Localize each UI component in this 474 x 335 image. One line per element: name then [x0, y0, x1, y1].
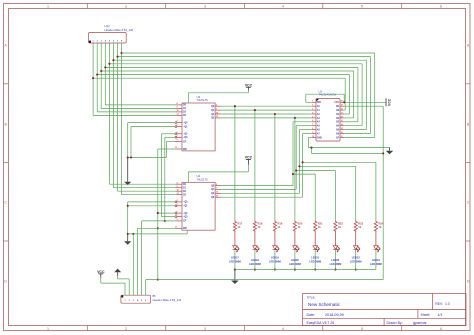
resistor R21 1k	[314, 220, 324, 232]
junction H12 pin 2	[96, 74, 98, 76]
junction gnd rail 2	[127, 233, 129, 235]
svg-text:74LS175: 74LS175	[197, 98, 209, 102]
IC U2 74LS245	[312, 89, 345, 141]
resistor R19 1k	[273, 220, 283, 232]
power flag VCC top (U3 supply)	[188, 83, 252, 103]
svg-text:16: 16	[341, 116, 343, 118]
svg-text:2: 2	[125, 327, 127, 331]
power flag VCC near U2	[386, 98, 392, 106]
resistor R23 1k	[354, 220, 364, 232]
junction LED column 2 tap	[254, 109, 256, 111]
svg-text:15: 15	[341, 120, 343, 122]
svg-text:8: 8	[312, 128, 313, 130]
connector P1 Header-Male 2.54_1x6	[121, 295, 182, 303]
wire net P0 : U4 Q0 to U2 A4 and LED column 5	[222, 122, 316, 221]
svg-text:R18: R18	[258, 222, 263, 226]
LED LED19 LED-3MM	[269, 231, 281, 270]
svg-text:LED-3MM: LED-3MM	[330, 262, 342, 266]
wire header pin6 drop	[145, 280, 147, 296]
svg-text:3: 3	[204, 4, 206, 8]
svg-text:Sheet:: Sheet:	[421, 313, 431, 317]
svg-text:CP: CP	[183, 141, 187, 143]
svg-text:3: 3	[177, 125, 178, 127]
svg-text:6: 6	[440, 327, 442, 331]
svg-text:6: 6	[312, 120, 313, 122]
wire net cathode bus	[235, 269, 376, 271]
ground symbol right of U2	[386, 148, 394, 155]
wire net bottom rail	[146, 279, 384, 281]
junction LED21 cathode	[314, 269, 316, 271]
svg-text:7: 7	[312, 124, 313, 126]
svg-text:R22: R22	[338, 222, 343, 226]
junction GND branch	[310, 147, 312, 149]
junction LED17 cathode	[234, 269, 236, 271]
wire net MR1 : U3 inverted outputs to ground rail	[128, 123, 176, 158]
svg-text:6: 6	[440, 4, 442, 8]
junction H12 pin 3	[100, 70, 102, 72]
svg-text:13: 13	[177, 193, 179, 195]
svg-text:7: 7	[216, 188, 217, 190]
svg-text:R24: R24	[379, 222, 384, 226]
svg-text:R23: R23	[358, 222, 363, 226]
svg-text:4: 4	[312, 111, 313, 114]
wire net D2 : H12 pin 3 to bus	[101, 43, 354, 118]
svg-text:7: 7	[216, 108, 217, 110]
svg-text:4: 4	[282, 4, 284, 8]
svg-text:New Schematic: New Schematic	[308, 302, 341, 307]
wire net MRB : U3 pin11 long rail	[158, 149, 176, 280]
svg-text:1: 1	[47, 327, 49, 331]
wire net OE	[344, 106, 383, 279]
wire net Q1 : U3 Q1 to U2 A1	[222, 110, 312, 220]
svg-text:5: 5	[177, 186, 178, 188]
svg-text:LED21: LED21	[311, 256, 320, 260]
power flag VCC mid (U4 supply)	[188, 156, 252, 183]
svg-text:4: 4	[282, 327, 284, 331]
svg-text:MR: MR	[183, 228, 187, 230]
junction riser 7	[298, 165, 300, 167]
junction riser 5	[292, 173, 294, 175]
svg-text:R20: R20	[298, 222, 303, 226]
svg-text:LED-3MM: LED-3MM	[370, 262, 382, 266]
svg-text:12: 12	[177, 110, 179, 112]
svg-text:LED-3MM: LED-3MM	[229, 259, 241, 263]
svg-text:R17: R17	[238, 222, 243, 226]
svg-text:LED24: LED24	[372, 258, 381, 262]
svg-text:~Q3: ~Q3	[183, 137, 188, 139]
svg-text:20: 20	[341, 101, 343, 103]
svg-text:REV: 1.0: REV: 1.0	[435, 302, 449, 306]
wire net MR2 : U4 inverted outputs to ground rail	[128, 202, 188, 234]
svg-text:74LS245ADW: 74LS245ADW	[319, 93, 337, 97]
wire net D0 : H12 pin 1 to bus	[93, 43, 345, 115]
svg-text:OE: OE	[336, 106, 340, 108]
svg-text:~Q0: ~Q0	[183, 122, 188, 124]
svg-text:LED22: LED22	[331, 258, 340, 262]
LED LED23 LED-3MM	[350, 231, 362, 270]
junction LED23 cathode	[355, 269, 357, 271]
svg-text:9: 9	[312, 132, 313, 134]
junction LED column 4 tap	[294, 117, 296, 119]
svg-text:13: 13	[177, 114, 179, 116]
junction header pin3	[132, 233, 134, 235]
svg-text:6: 6	[177, 132, 178, 134]
LED LED22 LED-3MM	[330, 231, 342, 270]
svg-text:Date:: Date:	[307, 313, 315, 317]
svg-text:9: 9	[177, 140, 178, 142]
svg-text:D: D	[467, 280, 470, 284]
svg-text:VCC: VCC	[97, 270, 105, 274]
svg-text:gparmar: gparmar	[413, 321, 428, 325]
svg-text:1/1: 1/1	[438, 313, 443, 317]
power flag VCC bottom-left	[97, 270, 125, 295]
svg-text:~Q3: ~Q3	[183, 216, 188, 218]
junction riser 6	[295, 169, 297, 171]
svg-text:2: 2	[312, 105, 313, 107]
wire net D5 : H12 pin 6 to bus	[113, 43, 366, 188]
svg-text:CP: CP	[183, 221, 187, 223]
svg-text:~Q2: ~Q2	[183, 213, 188, 215]
svg-text:14: 14	[341, 123, 343, 126]
junction rail/CP1	[157, 212, 159, 214]
svg-text:7: 7	[177, 215, 178, 217]
svg-text:~Q0: ~Q0	[183, 202, 188, 204]
svg-text:LED23: LED23	[352, 256, 361, 260]
svg-text:12: 12	[177, 190, 179, 192]
wire net P1 : U4 Q1 to U2 A5 and LED column 6	[222, 126, 336, 221]
wire net P2 : U4 Q2 to U2 A6 and LED column 7	[222, 130, 356, 221]
svg-text:TITLE:: TITLE:	[307, 295, 316, 299]
svg-text:C: C	[4, 201, 7, 205]
junction H12 pin 4	[104, 66, 106, 68]
svg-text:VCC: VCC	[388, 98, 392, 106]
wire net P3 : U4 Q3 to U2 A7 and LED column 8	[222, 134, 376, 221]
ground symbol LED bus	[231, 270, 239, 284]
wire net U4 pin11 from header pin4	[138, 228, 176, 295]
svg-text:15: 15	[216, 196, 218, 198]
junction rail/bottom bus	[157, 279, 159, 281]
ground symbol bottom-left (inverted)	[114, 269, 129, 296]
svg-text:9: 9	[177, 219, 178, 221]
resistor R24 1k	[374, 220, 384, 232]
svg-text:7: 7	[177, 135, 178, 137]
wire net D6 : H12 pin 7 to bus	[118, 43, 371, 191]
junction H12 pin 1	[92, 77, 94, 79]
svg-text:C: C	[467, 201, 470, 205]
junction LED18 cathode	[254, 269, 256, 271]
svg-text:LED18: LED18	[251, 258, 260, 262]
svg-text:VCC: VCC	[245, 83, 253, 87]
svg-text:VCC: VCC	[245, 156, 253, 160]
svg-text:LED17: LED17	[231, 256, 240, 260]
svg-text:6: 6	[177, 211, 178, 213]
svg-text:LED-3MM: LED-3MM	[350, 259, 362, 263]
svg-text:3: 3	[312, 109, 313, 111]
ground symbol under U3	[124, 158, 131, 186]
junction H12 pin 8	[120, 52, 122, 54]
svg-text:~Q1: ~Q1	[183, 126, 188, 128]
wire net U4 P from header pin5	[142, 221, 176, 295]
svg-text:2018-09-09: 2018-09-09	[325, 313, 344, 317]
svg-text:2: 2	[216, 184, 217, 186]
svg-text:EasyEDA V5.7.26: EasyEDA V5.7.26	[307, 321, 335, 325]
svg-text:2: 2	[125, 4, 127, 8]
title block	[303, 294, 467, 326]
IC U4 74LS175	[175, 174, 222, 230]
wire net D1 : H12 pin 2 to bus	[97, 43, 349, 114]
svg-text:10: 10	[216, 192, 218, 194]
junction U4 ~Q2	[127, 205, 129, 207]
junction U2 VCC pin	[343, 101, 345, 103]
junction riser 8	[302, 161, 304, 163]
svg-text:11: 11	[341, 136, 343, 138]
svg-text:VCC: VCC	[334, 102, 339, 104]
LED LED18 LED-3MM	[249, 231, 261, 270]
svg-text:2: 2	[177, 200, 178, 202]
wire net GND below U2	[309, 137, 390, 153]
resistor R18 1k	[253, 220, 263, 232]
LED LED24 LED-3MM	[370, 231, 382, 270]
wire net Q0 : U3 Q0 to U2 A0	[222, 106, 312, 220]
svg-text:LED19: LED19	[271, 256, 280, 260]
svg-text:5: 5	[361, 4, 363, 8]
junction ground rail U3	[127, 156, 129, 158]
junction OE/GND vertical	[382, 152, 384, 154]
wire net Q3 : U3 Q3 to U2 A3	[222, 118, 312, 220]
svg-text:5: 5	[312, 116, 313, 118]
svg-text:19: 19	[341, 105, 343, 107]
junction H12 pin 5	[108, 63, 110, 65]
svg-text:1: 1	[312, 101, 313, 103]
ground symbol under U4	[124, 234, 131, 245]
svg-text:3: 3	[204, 327, 206, 331]
wire net D4 : H12 pin 5 to bus	[109, 43, 362, 184]
junction rail/U4 pin11	[157, 227, 159, 229]
junction LED19 cathode	[274, 269, 276, 271]
svg-text:GND: GND	[317, 137, 322, 139]
svg-text:2: 2	[216, 105, 217, 107]
svg-text:DIR: DIR	[317, 102, 321, 104]
junction H12 pin 7	[116, 56, 118, 58]
svg-text:LED-3MM: LED-3MM	[309, 259, 321, 263]
svg-text:R19: R19	[278, 222, 283, 226]
junction LED column 3 tap	[274, 113, 276, 115]
svg-text:Header-Male 2.54_1x8: Header-Male 2.54_1x8	[105, 28, 134, 32]
svg-text:12: 12	[341, 132, 343, 134]
resistor R22 1k	[334, 220, 344, 232]
LED LED21 LED-3MM	[309, 231, 321, 270]
IC U3 74LS175	[175, 95, 222, 151]
svg-text:Header-Male-2.54_1x6: Header-Male-2.54_1x6	[153, 298, 182, 302]
svg-text:2: 2	[177, 121, 178, 123]
svg-text:10: 10	[216, 112, 218, 114]
junction 131/157	[130, 156, 132, 158]
connector H12 Header-Male 2.54_1x8	[89, 24, 134, 43]
svg-text:R21: R21	[318, 222, 323, 226]
svg-text:LED-3MM: LED-3MM	[269, 259, 281, 263]
svg-text:MR: MR	[183, 149, 187, 151]
svg-text:10: 10	[312, 136, 314, 138]
svg-text:15: 15	[216, 116, 218, 118]
junction LED22 cathode	[334, 269, 336, 271]
resistor R17 1k	[233, 220, 243, 232]
svg-text:3: 3	[177, 204, 178, 206]
LED LED20 LED-3MM	[289, 231, 301, 270]
svg-text:Drawn By:: Drawn By:	[387, 321, 403, 325]
wire net CP chain U3-U4	[162, 134, 176, 221]
svg-text:LED20: LED20	[291, 258, 300, 262]
svg-text:1: 1	[47, 4, 49, 8]
junction CP2/U4P	[164, 220, 166, 222]
junction H12 pin 6	[112, 59, 114, 61]
svg-text:5: 5	[177, 107, 178, 109]
wire net D7 : H12 pin 8 to bus	[122, 43, 375, 195]
svg-text:D: D	[4, 280, 7, 284]
svg-text:~Q2: ~Q2	[183, 134, 188, 136]
LED LED17 LED-3MM	[229, 231, 241, 270]
wire header pin3 riser	[132, 234, 134, 295]
svg-text:LED-3MM: LED-3MM	[289, 262, 301, 266]
wire net D3 : H12 pin 4 to bus	[105, 43, 358, 122]
svg-text:~Q1: ~Q1	[183, 206, 188, 208]
svg-text:17: 17	[341, 112, 343, 114]
resistor R20 1k	[293, 220, 303, 232]
svg-text:LED-3MM: LED-3MM	[249, 262, 261, 266]
junction LED column 1 tap	[234, 105, 236, 107]
wire net Q2 : U3 Q2 to U2 A2	[222, 114, 312, 220]
svg-text:13: 13	[341, 128, 343, 130]
wire net VCC : DIR loop to VCC pin	[306, 94, 386, 102]
svg-text:5: 5	[361, 327, 363, 331]
svg-text:18: 18	[341, 109, 343, 111]
svg-text:74LS175: 74LS175	[197, 177, 209, 181]
junction LED20 cathode	[294, 269, 296, 271]
